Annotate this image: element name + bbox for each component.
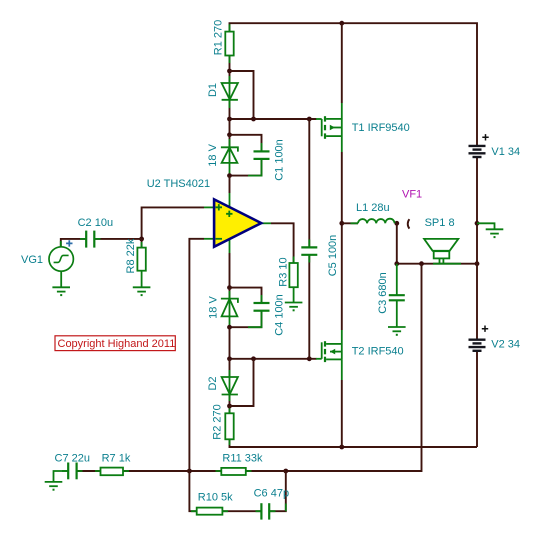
wire C5 column bottom (308, 255, 310, 359)
node gate row main (227, 117, 232, 122)
wire T2 gate row (230, 358, 317, 360)
wire C4 bottom branch (230, 311, 262, 328)
svg-text:C5 100n: C5 100n (327, 235, 339, 277)
wire C2 right lead (94, 238, 141, 240)
svg-text:V2 34: V2 34 (491, 338, 520, 350)
svg-text:D1: D1 (207, 83, 219, 97)
wire D2 anode lead (229, 359, 231, 377)
wire C4 top branch (230, 288, 262, 303)
resistor R3 (289, 263, 297, 287)
svg-text:D2: D2 (207, 376, 219, 390)
node R11 right / C6 right (283, 469, 288, 474)
node D2 cathode (227, 404, 232, 409)
wire VG1 bottom stub (60, 271, 62, 287)
wire R2 top lead (229, 406, 231, 413)
node V1 minus / ground (475, 221, 480, 226)
svg-text:V1 34: V1 34 (491, 146, 520, 158)
svg-text:C3 680n: C3 680n (377, 272, 389, 314)
wire op-amp noninverting input (142, 207, 204, 239)
ground below R3 (285, 303, 303, 312)
node V2 top (475, 261, 480, 266)
node gate row C5 (307, 117, 312, 122)
node T2 gate row C5 (307, 356, 312, 361)
wire R1 bottom to D1 (229, 56, 231, 84)
inductor L1 (358, 219, 395, 224)
wire T1 source to output node (341, 119, 343, 152)
zener diode DZ1 18V (221, 147, 238, 163)
node feedback bottom left (187, 469, 192, 474)
voltage probe VF1 arc (408, 219, 410, 228)
wire VG1 to C2 (61, 239, 86, 247)
node top rail / T1 drain junction (339, 21, 344, 26)
node above D1 (227, 69, 232, 74)
svg-text:R3 10: R3 10 (277, 257, 289, 286)
resistor R11 (221, 468, 246, 475)
ground below C7 (45, 482, 63, 491)
transistor T2 IRF540 (316, 341, 342, 362)
wire op-amp positive supply (229, 176, 231, 193)
wire R7 right lead (123, 470, 189, 472)
wire V column middle (476, 223, 478, 263)
resistor R10 (197, 508, 223, 515)
capacitor C6 (261, 503, 269, 519)
wire C1 top branch (230, 135, 262, 151)
diode D1 (222, 83, 238, 100)
wire top rail (230, 23, 478, 146)
svg-text:R11 33k: R11 33k (222, 453, 263, 465)
svg-text:SP1 8: SP1 8 (425, 217, 455, 229)
svg-text:U2 THS4021: U2 THS4021 (147, 178, 210, 190)
node T2 gate row main (227, 356, 232, 361)
svg-text:L1 28u: L1 28u (356, 202, 390, 214)
plus mark V2 (482, 326, 488, 332)
resistor R1 (225, 32, 233, 56)
svg-text:C7 22u: C7 22u (55, 452, 90, 464)
battery V2 (469, 340, 486, 351)
svg-text:R10 5k: R10 5k (198, 492, 233, 504)
wire C7 ground jog (54, 471, 69, 482)
node zener1 top (227, 132, 232, 137)
plus mark V1 (482, 134, 488, 140)
wire V2 top lead (476, 264, 478, 340)
resistor R8 (137, 248, 145, 271)
svg-text:VF1: VF1 (402, 189, 422, 201)
svg-text:C4 100n: C4 100n (273, 294, 285, 336)
generator VG1 (49, 247, 73, 271)
wire green lead stubs (61, 24, 358, 511)
node feedback top (419, 261, 424, 266)
svg-text:R1 270: R1 270 (212, 20, 224, 55)
capacitor C7 (68, 463, 76, 480)
svg-text:R2 270: R2 270 (211, 404, 223, 439)
wire R10 branch left (189, 471, 196, 511)
node op-amp negative supply (227, 285, 232, 290)
wire C7 to R7 (77, 470, 101, 472)
diode D2 (222, 377, 238, 395)
wire C1 bottom branch (230, 159, 262, 176)
ground right of V1 (477, 223, 503, 238)
resistor R2 (225, 413, 233, 439)
node gate row bypass (251, 117, 256, 122)
resistor R7 (101, 468, 124, 476)
wire R11 right lead (246, 470, 286, 472)
speaker SP1 (424, 239, 461, 264)
capacitor C5 (301, 247, 317, 254)
wire gate row down to zener node (229, 119, 231, 135)
node L1 right / VF1 (394, 221, 399, 226)
wire R8 top lead (141, 239, 143, 248)
capacitor C3 (389, 264, 405, 320)
wire D2 bypass branch (230, 359, 254, 406)
capacitor C4 (254, 303, 270, 311)
plus mark VG1 (66, 240, 72, 246)
wire speaker row (397, 263, 477, 265)
wire R11 left lead (189, 470, 221, 472)
ground below C3 (388, 320, 406, 336)
node output / L1 left (339, 221, 344, 226)
wire feedback up to op-amp inverting input (189, 239, 204, 471)
wire feedback right column (286, 264, 422, 471)
wire L1 node down to speaker row (396, 223, 398, 263)
wire op-amp output (261, 222, 271, 224)
wire down to T2 gate row (229, 327, 231, 359)
wire R3 bottom stub (293, 287, 295, 302)
wire V2 bottom column (476, 350, 478, 447)
wire zener2 bottom lead (229, 316, 231, 327)
svg-text:Copyright Highand 2011: Copyright Highand 2011 (58, 338, 176, 350)
battery V1 (469, 146, 486, 157)
wire L1 left lead (342, 222, 358, 224)
wire D1 bypass branch (230, 71, 254, 119)
wire D2 cathode to node (229, 394, 231, 406)
wire op-amp negative supply (229, 238, 231, 253)
zener diode DZ2 18V (221, 299, 238, 317)
wire R8 bottom stub (141, 271, 143, 288)
svg-text:C1 100n: C1 100n (273, 139, 285, 181)
svg-text:VG1: VG1 (21, 254, 43, 266)
copyright box (55, 336, 175, 351)
wire T1 drain column (341, 23, 343, 103)
wire zener1 top lead (229, 135, 231, 148)
node C2 / R8 (139, 237, 144, 242)
svg-text:C6 47p: C6 47p (254, 487, 289, 499)
wire L1 right lead (395, 222, 397, 224)
node T2 source / bottom rail (339, 445, 344, 450)
wire zener1 bottom lead (229, 163, 231, 176)
wire T1 gate row (230, 118, 317, 120)
capacitor C2 (86, 231, 94, 248)
node C3 top (394, 261, 399, 266)
op-amp U1 THS4021 (214, 199, 261, 246)
svg-text:T1 IRF9540: T1 IRF9540 (352, 122, 410, 134)
wire R2 bottom to rail (230, 439, 478, 447)
svg-text:T2 IRF540: T2 IRF540 (352, 345, 404, 357)
transistor T1 IRF9540 (316, 116, 342, 139)
node zener1 bottom (227, 173, 232, 178)
svg-text:R7 1k: R7 1k (102, 452, 131, 464)
svg-text:C2 10u: C2 10u (78, 217, 113, 229)
node zener2 bottom (227, 325, 232, 330)
wire zener2 top lead (229, 288, 231, 299)
ground below R8 (133, 287, 151, 296)
node T2 gate row bypass (251, 356, 256, 361)
ground below VG1 (52, 287, 70, 296)
svg-text:18 V: 18 V (207, 143, 219, 166)
svg-text:18 V: 18 V (207, 296, 219, 319)
wire T2 source down (341, 359, 343, 380)
wire R10 to C6 (222, 510, 261, 512)
wire D1 cathode to gate row (229, 100, 231, 120)
wire V column below V1 (476, 157, 478, 223)
svg-text:R8 22k: R8 22k (125, 238, 137, 273)
wire C6 right branch (269, 471, 286, 511)
capacitor C1 (254, 151, 270, 159)
wire C5 column top (308, 119, 310, 247)
